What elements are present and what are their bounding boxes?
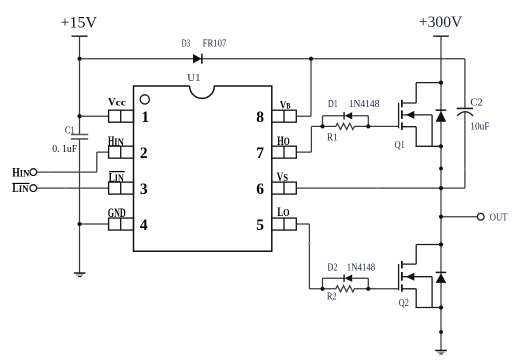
svg-text:10uF: 10uF (470, 122, 489, 133)
svg-text:VS: VS (277, 170, 289, 184)
svg-text:GND: GND (108, 206, 126, 220)
svg-text:LO: LO (277, 205, 290, 219)
svg-text:4: 4 (140, 217, 148, 234)
svg-text:Q1: Q1 (395, 140, 405, 151)
svg-text:8: 8 (256, 109, 264, 126)
svg-text:Q2: Q2 (399, 298, 409, 309)
svg-text:D2: D2 (327, 262, 337, 273)
svg-text:D3: D3 (182, 39, 191, 50)
svg-text:LIN: LIN (109, 170, 125, 184)
svg-text:U1: U1 (187, 73, 200, 84)
svg-text:OUT: OUT (490, 212, 508, 224)
svg-text:+300V: +300V (419, 14, 463, 31)
svg-text:R1: R1 (327, 132, 338, 143)
svg-text:2: 2 (140, 145, 148, 162)
svg-text:D1: D1 (328, 99, 338, 110)
svg-text:C2: C2 (470, 98, 483, 109)
svg-text:1: 1 (141, 109, 149, 126)
svg-text:6: 6 (256, 181, 264, 198)
svg-text:1N4148: 1N4148 (347, 262, 375, 273)
svg-text:7: 7 (256, 145, 264, 162)
svg-text:+15V: +15V (61, 15, 98, 32)
svg-text:R2: R2 (327, 292, 337, 303)
svg-text:HO: HO (277, 133, 290, 148)
svg-text:5: 5 (256, 217, 264, 234)
svg-text:3: 3 (140, 181, 148, 198)
svg-text:C1: C1 (65, 125, 75, 136)
svg-text:FR107: FR107 (203, 39, 227, 50)
svg-text:0. 1uF: 0. 1uF (52, 144, 77, 155)
svg-text:1N4148: 1N4148 (349, 99, 380, 110)
svg-text:HIN: HIN (12, 165, 29, 179)
